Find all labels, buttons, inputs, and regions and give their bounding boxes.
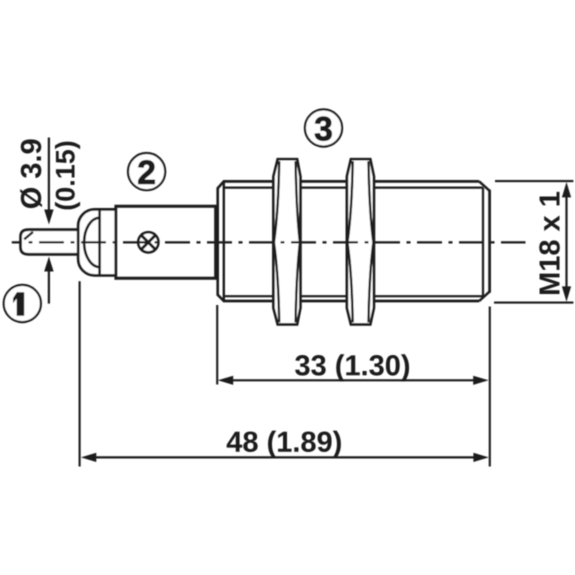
dome chord line V1 — [98, 209, 101, 275]
right end chamfer bottom — [479, 292, 489, 301]
extension line at cap tip — [79, 281, 81, 466]
extension line M18 bottom — [494, 302, 573, 304]
dimension line Ø3.9 lower — [48, 270, 50, 304]
dimension line 48 — [93, 456, 476, 458]
arrow up to pin bottom — [44, 257, 53, 272]
thread minor line bottom — [224, 295, 483, 297]
dimension text 33 (1.30) — [295, 354, 409, 381]
dimension line Ø3.9 upper — [48, 138, 50, 212]
thread body top edge — [223, 180, 479, 183]
step line V2 — [114, 205, 117, 280]
extension line at flange left — [216, 305, 218, 385]
extension line at body right — [489, 307, 491, 467]
callout numeral 1 (custom no-foot) — [13, 292, 24, 316]
sensing pin (item 1) — [21, 230, 79, 255]
dimension text (0.15) — [55, 142, 80, 210]
arrow M18 down — [562, 286, 571, 301]
arrow 33 right — [473, 376, 488, 385]
dimension text 48 (1.89) — [227, 431, 341, 458]
cylinder end vertical — [214, 205, 216, 280]
hex nut 1 — [273, 159, 300, 324]
centerline dash-dot — [12, 241, 526, 243]
LED indicator circle — [138, 232, 158, 252]
pin tip chamfer line — [24, 232, 33, 239]
threaded body left flange — [218, 181, 224, 301]
LED X stroke 2 — [141, 235, 155, 249]
right end edge — [488, 190, 491, 293]
dimension line 33 — [230, 379, 476, 381]
callout numeral 2 — [138, 160, 154, 183]
thread start vertical — [223, 181, 225, 301]
arrow down to pin top — [44, 210, 53, 225]
arrow M18 up — [562, 182, 571, 197]
dimension text Ø 3.9 — [20, 139, 42, 208]
thread minor line top — [224, 187, 483, 189]
inner dome arc — [84, 218, 99, 267]
extension line M18 top — [495, 180, 573, 182]
cylinder top edge — [115, 205, 218, 208]
hex nut 2 — [347, 159, 374, 324]
cylinder bottom edge — [115, 277, 218, 280]
callout circle 3 — [305, 109, 342, 146]
arrow 48 right — [473, 453, 488, 462]
thread body bottom edge — [223, 300, 479, 303]
arrow 48 left — [81, 453, 96, 462]
right end inner line — [482, 188, 484, 297]
arrow 33 left — [218, 376, 233, 385]
dimension line M18 — [565, 194, 567, 290]
LED X stroke 1 — [141, 235, 155, 249]
callout circle 1 — [4, 285, 41, 322]
callout numeral 3 — [315, 117, 332, 141]
callout circle 2 — [128, 153, 165, 190]
cap dome outline (item 2 front) — [78, 209, 116, 275]
right end chamfer top — [479, 181, 489, 190]
dimension text M18 x 1 — [539, 192, 560, 294]
